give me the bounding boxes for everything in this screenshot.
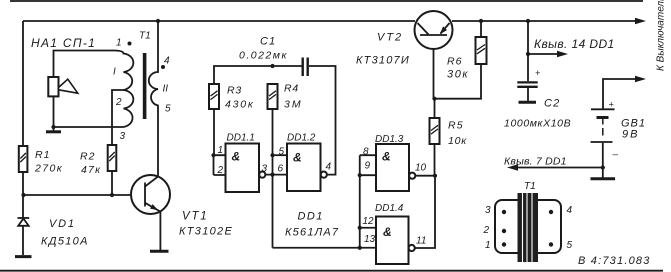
wire VT1 emitter to ground (159, 212, 161, 250)
svg-text:R2: R2 (80, 151, 95, 163)
ground under VD1 (15, 255, 32, 258)
resistor R5 (430, 118, 468, 147)
svg-text:VD1: VD1 (49, 218, 76, 230)
svg-text:R6: R6 (447, 56, 462, 68)
gate DD1.1 (211, 133, 267, 193)
wire VT2 base lead (433, 35, 435, 99)
transistor VT1 (131, 175, 233, 238)
svg-text:Квыв. 7 DD1: Квыв. 7 DD1 (504, 156, 567, 168)
node pin3 net (270, 173, 274, 177)
ground under speaker (46, 130, 61, 133)
svg-text:DD1: DD1 (298, 211, 324, 223)
wire top rail right segment with arrow (452, 20, 637, 22)
gate DD1.4 (360, 203, 427, 264)
svg-text:3: 3 (485, 205, 491, 216)
diode VD1 (18, 218, 89, 248)
svg-text:Квыв. 14 DD1: Квыв. 14 DD1 (534, 37, 615, 51)
node pin13 (358, 246, 362, 250)
svg-text:13: 13 (364, 234, 376, 245)
svg-text:3М: 3М (284, 99, 303, 111)
svg-text:4: 4 (567, 205, 573, 216)
ground under battery (591, 177, 616, 180)
svg-text:R1: R1 (35, 149, 50, 161)
wire pin10 to R5 (415, 175, 435, 177)
transformer T1 physical core (518, 193, 539, 262)
svg-text:2: 2 (217, 165, 224, 176)
svg-text:&: & (293, 151, 302, 165)
resistor R1 (19, 146, 63, 175)
svg-text:+: + (609, 100, 614, 110)
transformer T1 physical bobbin (495, 200, 561, 253)
svg-text:9: 9 (365, 161, 371, 172)
wire battery plus with arrow (603, 79, 637, 109)
wire R5 verticals (434, 99, 436, 176)
wire long bottom horizontal to DD1.4 (273, 247, 377, 249)
svg-text:4: 4 (164, 56, 170, 67)
svg-text:1000мкХ10В: 1000мкХ10В (504, 118, 571, 130)
wire pin11 up to pin10 (415, 176, 435, 248)
svg-text:0.022мк: 0.022мк (239, 50, 288, 62)
gate DD1.2 (273, 133, 332, 192)
svg-text:8: 8 (363, 147, 369, 158)
frame top line (10, 0, 643, 2)
node secondary to rail (156, 19, 160, 23)
node R1-R2-base junction (21, 193, 25, 197)
node R4 top (270, 64, 274, 68)
ground under VT1 (150, 250, 169, 253)
svg-text:&: & (232, 150, 241, 164)
node R6 top (479, 19, 483, 23)
svg-text:DD1.2: DD1.2 (287, 133, 316, 144)
battery GB1 (591, 100, 647, 178)
node pin10/R5 (433, 174, 437, 178)
transformer T1 secondary winding (149, 21, 158, 177)
svg-text:DD1.4: DD1.4 (375, 203, 404, 214)
svg-text:30к: 30к (447, 69, 469, 81)
svg-text:R4: R4 (284, 83, 299, 95)
wire tap pin2 (112, 90, 124, 145)
wire speaker loop top (54, 51, 116, 78)
capacitor C2 (504, 68, 571, 130)
svg-text:1: 1 (485, 240, 491, 251)
resistor R6 (447, 37, 487, 81)
svg-text:R5: R5 (448, 120, 464, 132)
svg-text:4: 4 (326, 162, 332, 173)
svg-text:С2: С2 (544, 98, 560, 110)
node battery minus (601, 165, 605, 169)
wire R3 bottom to DD1.1 inputs (213, 109, 215, 155)
resistor R3 (209, 84, 255, 111)
svg-text:47к: 47к (81, 164, 101, 176)
arrowhead top rail (635, 18, 646, 24)
svg-text:2: 2 (483, 225, 490, 236)
node pin9 (358, 173, 362, 177)
svg-text:VT2: VT2 (377, 32, 403, 44)
svg-text:3: 3 (262, 164, 268, 175)
svg-text:&: & (383, 225, 392, 239)
speaker HA1 (48, 77, 78, 96)
wire speaker bottom (53, 96, 55, 130)
transistor VT2 (356, 11, 453, 67)
node pin12 (358, 226, 362, 230)
gate DD1.3 (360, 134, 427, 191)
svg-text:6: 6 (278, 164, 284, 175)
ground under C2 (519, 101, 537, 104)
node speaker/pin3 junction (51, 125, 55, 129)
svg-text:К Выключателю: К Выключателю (656, 0, 667, 71)
wire C2 vertical (527, 21, 529, 101)
node VT2 base / R6 / R5 (432, 97, 436, 101)
svg-text:Т1: Т1 (524, 181, 536, 192)
svg-text:2: 2 (115, 97, 122, 108)
wire C1 left to R3/R4 tops (214, 66, 302, 84)
svg-text:R3: R3 (227, 85, 242, 97)
wire pin3 to pin6 (265, 174, 287, 176)
svg-text:КД510А: КД510А (41, 236, 89, 248)
svg-text:5: 5 (165, 104, 171, 115)
transformer T1 primary winding (115, 51, 133, 128)
svg-text:12: 12 (363, 216, 375, 227)
svg-text:430к: 430к (225, 99, 255, 111)
wire top rail left segment (23, 20, 415, 22)
wire left vertical (22, 21, 24, 255)
svg-text:С1: С1 (260, 36, 276, 48)
resistor R4 (268, 83, 303, 111)
wire base line to VT1 (24, 194, 146, 196)
svg-text:II: II (163, 84, 169, 95)
wire pin3 horizontal (54, 126, 124, 128)
svg-text:10: 10 (415, 163, 427, 174)
svg-text:КТ3107И: КТ3107И (356, 55, 410, 67)
node R2 bottom (110, 193, 114, 197)
node C2 branch top (526, 19, 530, 23)
wire R4 bottom long vertical (272, 109, 274, 248)
svg-text:5: 5 (279, 147, 285, 158)
svg-text:К561ЛА7: К561ЛА7 (285, 227, 339, 239)
node pin14 branch (526, 52, 530, 56)
svg-text:5: 5 (567, 240, 573, 251)
svg-text:270к: 270к (34, 163, 63, 175)
svg-text:10к: 10к (448, 135, 467, 147)
svg-text:В 4:731.083: В 4:731.083 (578, 255, 651, 267)
svg-text:1: 1 (218, 145, 224, 156)
svg-text:DD1.1: DD1.1 (227, 133, 255, 144)
svg-text:+: + (535, 68, 540, 78)
wire R2 bottom (111, 171, 113, 195)
svg-text:1: 1 (116, 38, 122, 49)
svg-text:&: & (382, 150, 391, 164)
resistor R2 (80, 145, 116, 176)
wire arrow to pin 7 DD1 (516, 167, 603, 169)
svg-text:Т1: Т1 (139, 31, 151, 42)
wire R6 leads (435, 21, 482, 99)
svg-text:VT1: VT1 (182, 211, 209, 223)
svg-text:НА1 СП-1: НА1 СП-1 (31, 36, 96, 50)
svg-text:11: 11 (416, 236, 426, 247)
frame bottom line (0, 270, 663, 272)
wire arrow to pin 14 DD1 (528, 53, 559, 55)
transformer T1 physical pins (483, 205, 573, 251)
svg-text:КТ3102Е: КТ3102Е (179, 226, 233, 238)
wire C1 right down to pin4 (309, 66, 336, 175)
node pin5 net (270, 153, 274, 157)
svg-text:3: 3 (120, 131, 126, 142)
wire DD1.3/DD1.4 input tie vertical (359, 155, 361, 248)
transformer T1 core (143, 53, 147, 119)
svg-text:I: I (113, 67, 116, 78)
svg-text:9В: 9В (622, 129, 639, 141)
svg-text:–: – (612, 150, 619, 161)
capacitor C1 (239, 36, 308, 77)
